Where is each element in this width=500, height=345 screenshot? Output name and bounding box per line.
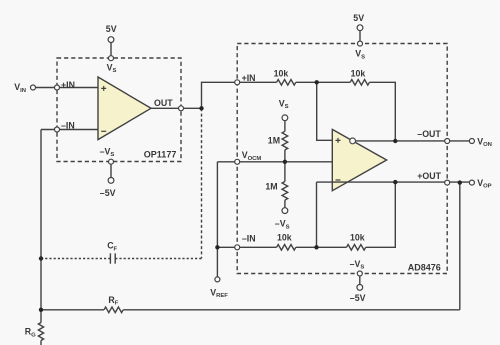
svg-text:5V: 5V bbox=[106, 24, 117, 34]
svg-text:–IN: –IN bbox=[61, 121, 75, 131]
svg-text:–5V: –5V bbox=[350, 293, 366, 303]
svg-text:–5V: –5V bbox=[100, 188, 116, 198]
svg-text:10k: 10k bbox=[277, 233, 292, 243]
svg-text:–IN: –IN bbox=[242, 233, 256, 243]
svg-text:1M: 1M bbox=[265, 182, 277, 192]
svg-text:+IN: +IN bbox=[61, 80, 75, 90]
svg-text:10k: 10k bbox=[350, 233, 365, 243]
svg-text:AD8476: AD8476 bbox=[408, 262, 441, 272]
svg-text:+IN: +IN bbox=[242, 73, 256, 83]
svg-text:OP1177: OP1177 bbox=[144, 150, 177, 160]
svg-text:10k: 10k bbox=[351, 68, 366, 78]
svg-text:–OUT: –OUT bbox=[417, 129, 441, 139]
svg-text:5V: 5V bbox=[353, 13, 364, 23]
svg-text:1M: 1M bbox=[268, 136, 280, 146]
svg-text:OUT: OUT bbox=[154, 98, 173, 108]
svg-text:10k: 10k bbox=[274, 68, 289, 78]
svg-text:+OUT: +OUT bbox=[417, 171, 441, 181]
